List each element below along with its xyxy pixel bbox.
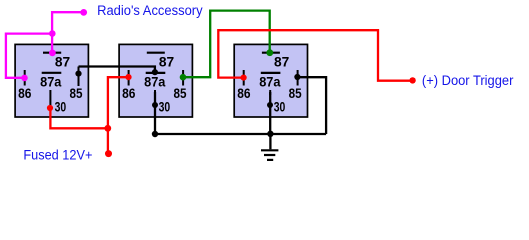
node: K2 pin 30 terminal: [152, 102, 158, 108]
node: bus junction under K2: [152, 131, 158, 137]
svg-text:87a: 87a: [144, 74, 165, 90]
wire magenta: Radio's Accessory to K1 pin 87: [52, 12, 84, 53]
svg-text:87: 87: [274, 53, 290, 69]
relay K3 body: [234, 44, 307, 117]
node: door trigger endpoint: [409, 77, 415, 83]
wire black: K3 pin 30 down to ground bus: [269, 92, 271, 134]
svg-text:86: 86: [122, 85, 135, 101]
relay K2 contact 87a bar: [146, 72, 166, 74]
node: ground junction under K3: [267, 131, 273, 137]
svg-text:85: 85: [174, 85, 187, 101]
node: Fused 12V+ endpoint: [105, 150, 112, 157]
node: magenta junction: [49, 30, 56, 37]
svg-text:85: 85: [70, 85, 83, 101]
svg-text:86: 86: [237, 85, 250, 101]
relay K2 pin 85 lead: [182, 70, 184, 86]
node: K2 pin 85 terminal: [180, 74, 187, 81]
relay K2 pin 30 lead: [154, 90, 156, 95]
node: K3 pin 85 terminal: [294, 74, 300, 80]
node: K1 pin 87 terminal: [49, 50, 56, 57]
svg-text:(+) Door Trigger: (+) Door Trigger: [422, 73, 514, 88]
svg-text:87: 87: [159, 53, 175, 69]
relay K1 pin 86 lead: [24, 70, 26, 86]
svg-text:86: 86: [18, 85, 31, 101]
svg-text:87a: 87a: [40, 74, 61, 90]
relay K3 pin 85 lead: [297, 70, 299, 86]
node: K3 pin 86 terminal: [241, 75, 247, 81]
relay K3 pin 86 lead: [243, 70, 245, 86]
svg-text:30: 30: [55, 98, 67, 114]
wire red: K1 pin 30 to fused 12V+ junction: [50, 108, 108, 128]
ground symbol: [269, 134, 271, 149]
svg-text:30: 30: [159, 98, 171, 114]
wire black: ground bus: [155, 133, 326, 135]
relay K3 contact 87a bar: [261, 72, 281, 74]
wire black: K2 pin 30 down to ground bus: [154, 92, 156, 134]
node: K2 pin 86 terminal: [125, 74, 131, 80]
relay K1 contact 87 bar: [43, 52, 61, 54]
relay K1 body: [15, 44, 88, 117]
svg-text:87a: 87a: [259, 74, 280, 90]
svg-text:30: 30: [274, 98, 286, 114]
wire red: door trigger line to K3 pin 86: [218, 30, 412, 80]
node: Radio's Accessory endpoint dot: [80, 9, 87, 16]
node: K1 pin 85 terminal: [75, 71, 81, 77]
wire green: K2 pin 85 to K3 pin 87: [183, 11, 270, 78]
node: K1 pin 30 terminal: [47, 105, 53, 111]
relay K2 body: [119, 44, 192, 117]
node: K2 pin 87a terminal: [152, 69, 158, 75]
relay K2 contact 87 bar: [147, 52, 165, 54]
relay K1 pin 85 lead: [78, 67, 80, 87]
node: K3 pin 30 terminal: [267, 102, 273, 108]
svg-text:85: 85: [289, 85, 302, 101]
wire red: riser from Fused 12V+ up to K2 pin 86: [108, 77, 129, 153]
svg-text:Fused 12V+: Fused 12V+: [23, 147, 92, 162]
relay K3 pin 30 lead: [269, 90, 271, 95]
svg-text:Radio's Accessory: Radio's Accessory: [97, 3, 203, 18]
relay K2 pin 86 lead: [128, 70, 130, 86]
node: red junction: [104, 125, 111, 132]
relay K3 contact 87 bar: [262, 52, 280, 54]
svg-text:87: 87: [55, 53, 71, 69]
relay K1 pin 30 lead: [49, 90, 51, 108]
wire black: K1 pin 85 to K2 pin 87a: [79, 67, 155, 73]
node: K1 pin 86 terminal: [21, 75, 28, 82]
wire black: K3 pin 85 to bus right side: [297, 77, 326, 134]
relay K1 contact 87a bar: [42, 72, 62, 74]
node: K3 pin 87 terminal: [266, 49, 273, 56]
wire magenta branch: junction to K1 pin 86: [6, 34, 52, 78]
